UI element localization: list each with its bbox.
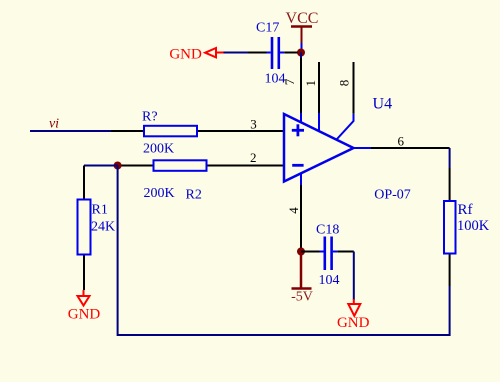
svg-text:104: 104 [265, 71, 286, 86]
op-amp U4 triangle [284, 114, 354, 182]
pin 7 (V+) [282, 57, 301, 123]
pin 2 [254, 165, 284, 167]
svg-text:R1: R1 [92, 203, 108, 218]
wire vi input [30, 130, 111, 132]
svg-text:Rf: Rf [458, 202, 473, 218]
svg-text:24K: 24K [91, 220, 115, 235]
svg-text:OP-07: OP-07 [374, 188, 411, 203]
svg-text:U4: U4 [373, 96, 393, 113]
resistor R1 [78, 166, 116, 291]
junction node (inverting input / feedback) [114, 162, 122, 170]
svg-text:200K: 200K [144, 186, 175, 201]
svg-text:C18: C18 [316, 223, 339, 238]
resistor R? [111, 110, 254, 157]
capacitor C17 [224, 21, 298, 87]
junction node VCC [297, 49, 305, 57]
svg-text:GND: GND [169, 46, 202, 62]
ground (top left) [169, 46, 223, 62]
wire C18 to ground [353, 252, 355, 301]
ground (R1) [68, 290, 101, 323]
pin 8 (offset null) [337, 62, 354, 139]
wire output to Rf [371, 147, 450, 149]
svg-text:6: 6 [398, 134, 405, 149]
svg-text:1: 1 [303, 80, 318, 87]
svg-text:3: 3 [250, 117, 257, 132]
pin 6 [354, 147, 372, 149]
svg-text:200K: 200K [143, 142, 174, 157]
svg-text:4: 4 [286, 207, 301, 214]
svg-text:VCC: VCC [286, 10, 319, 27]
wire junction to R1 [84, 165, 118, 167]
svg-text:104: 104 [319, 273, 340, 288]
svg-text:100K: 100K [457, 218, 490, 234]
resistor R2 [118, 160, 254, 202]
op-amp minus [292, 164, 303, 167]
svg-text:GND: GND [68, 307, 101, 323]
pin 4 (V-) [286, 174, 301, 252]
svg-text:2: 2 [250, 150, 257, 165]
wire feedback loop [118, 166, 450, 336]
junction node pin4 / C18 / -5V [297, 248, 305, 256]
pin 1 (offset null) [303, 62, 319, 132]
svg-text:GND: GND [337, 315, 370, 331]
ground (C18) [337, 299, 370, 331]
svg-text:R?: R? [142, 110, 158, 125]
pin 3 [254, 130, 284, 132]
op-amp plus [292, 124, 304, 136]
capacitor C18 [301, 223, 354, 289]
svg-text:R2: R2 [186, 188, 202, 203]
svg-text:vi: vi [49, 117, 59, 132]
resistor Rf [444, 168, 490, 286]
svg-text:-5V: -5V [291, 290, 313, 305]
power -5V [291, 252, 313, 305]
svg-text:8: 8 [337, 80, 352, 87]
svg-text:C17: C17 [256, 21, 279, 36]
power VCC [286, 10, 319, 50]
wire junction down to pin 7 [300, 53, 302, 59]
